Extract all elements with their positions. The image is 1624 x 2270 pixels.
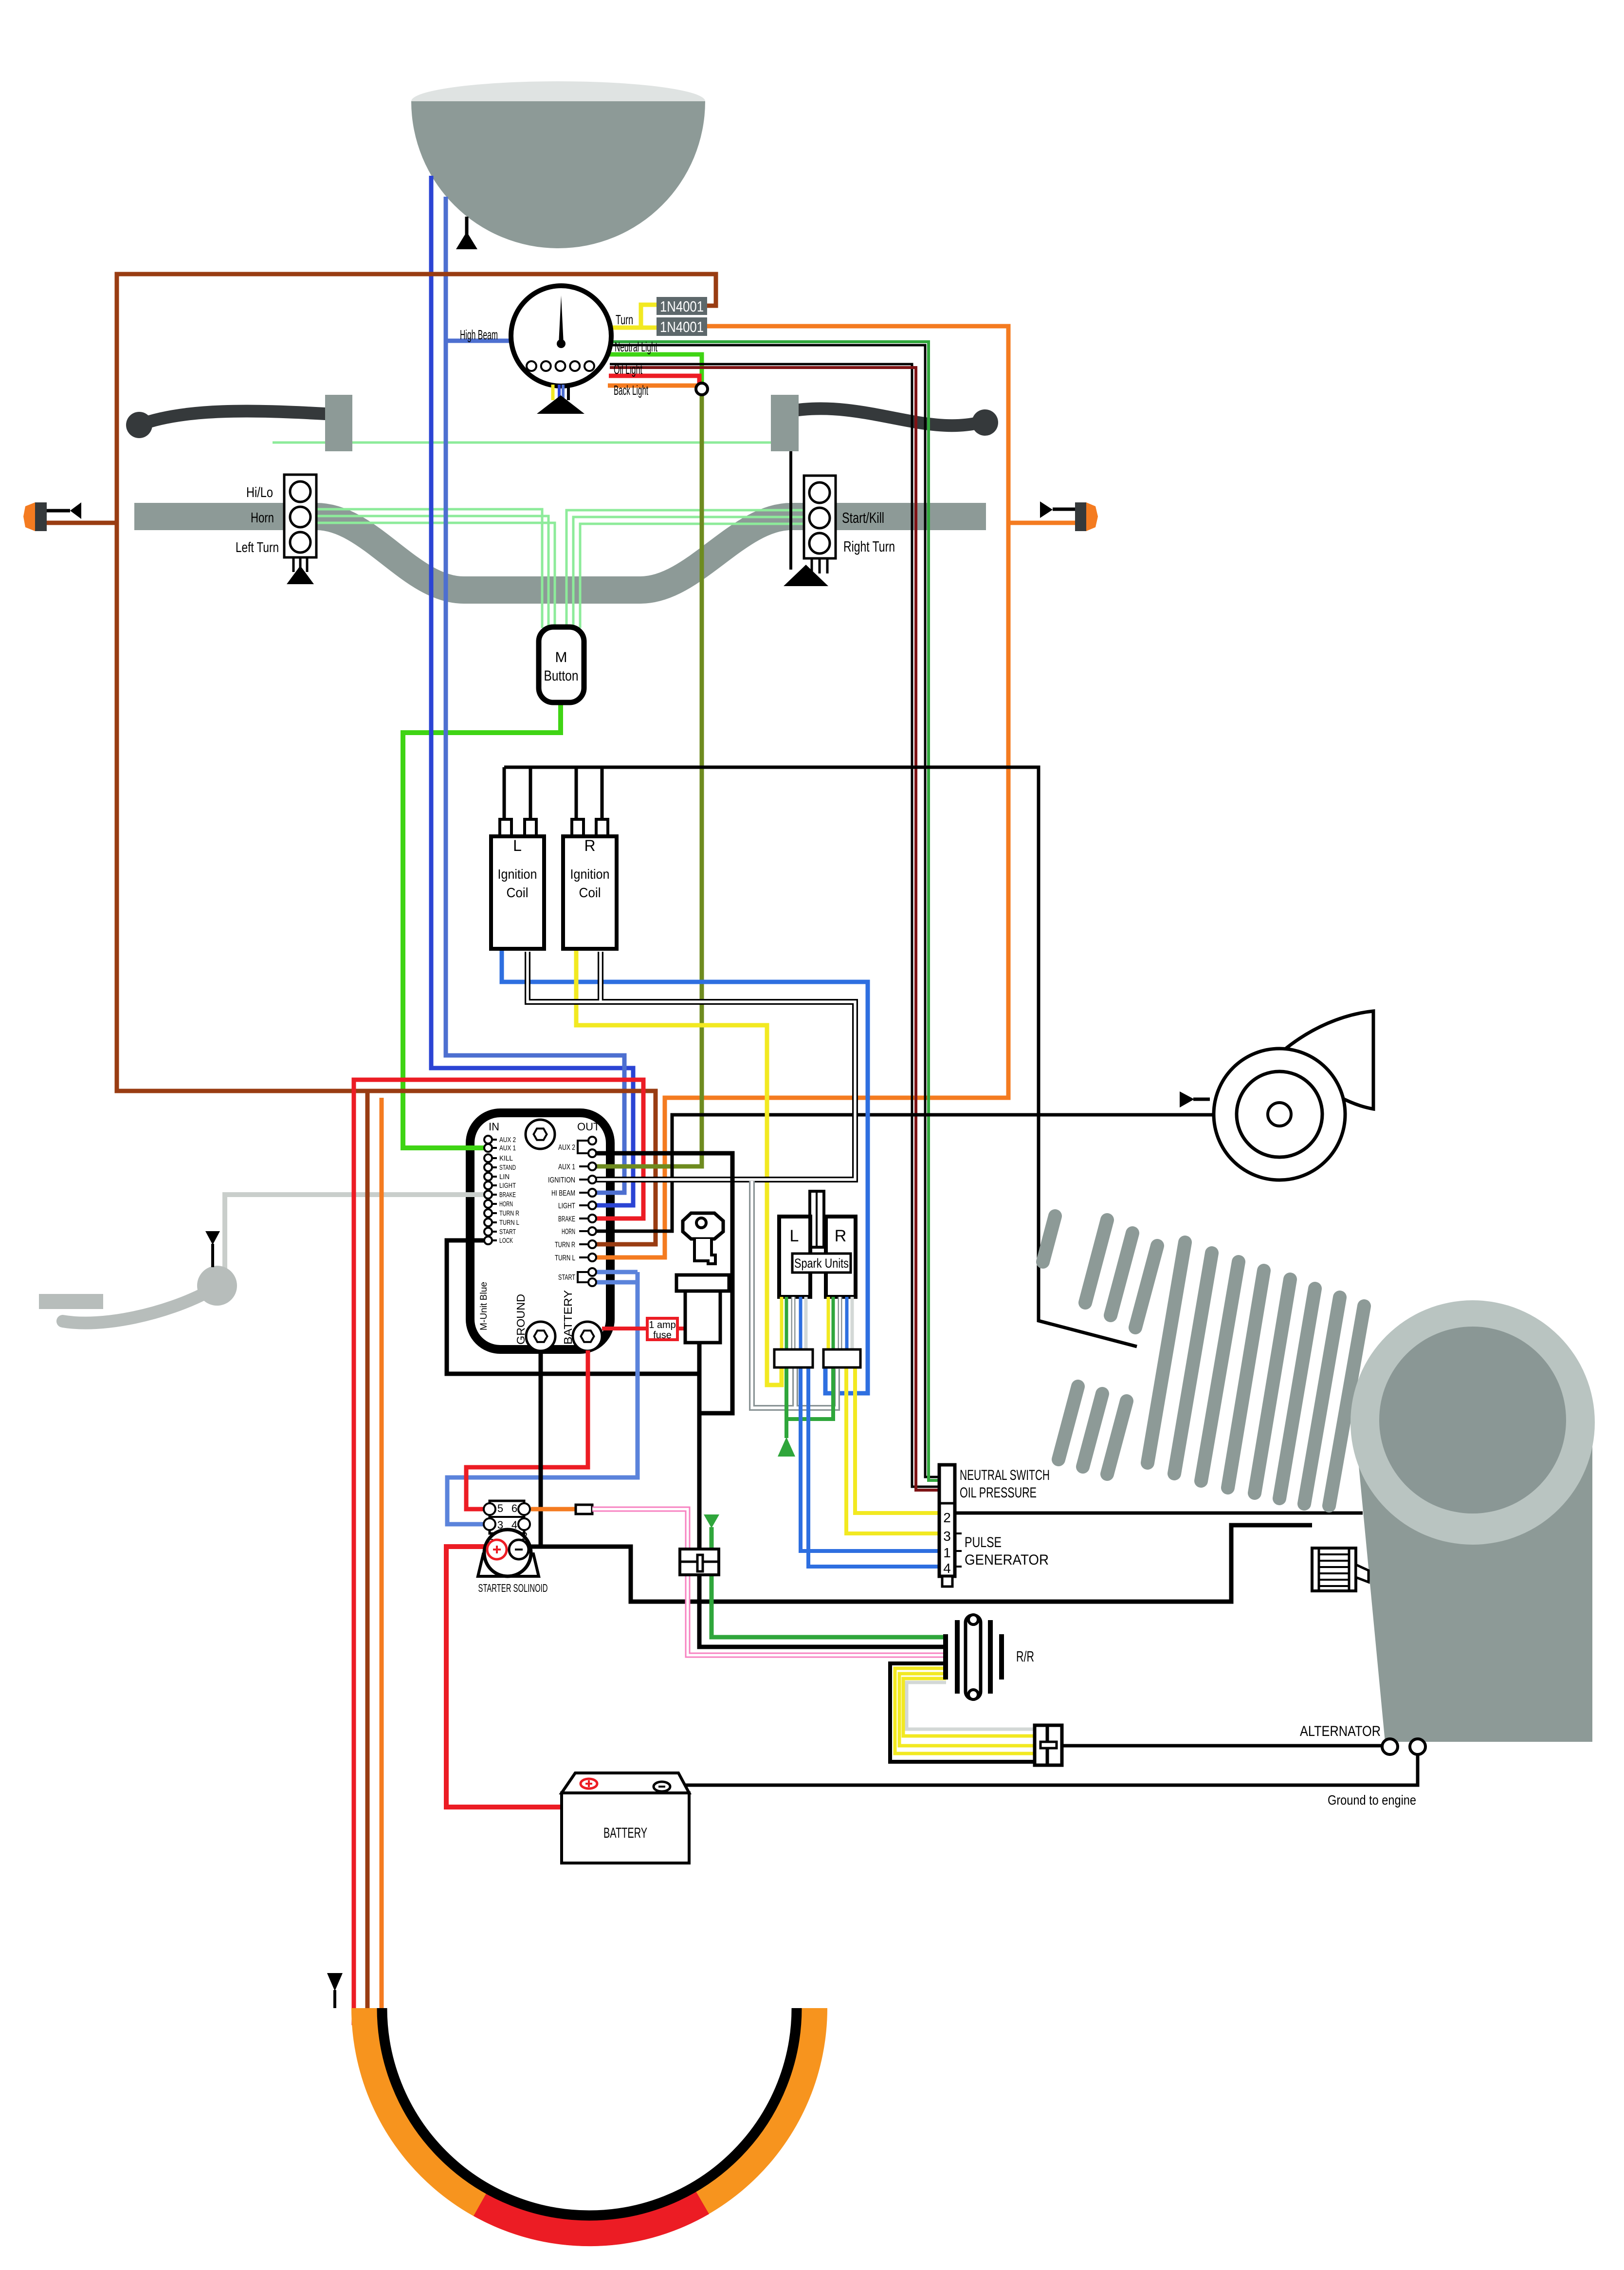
rear brake pedal: [39, 1266, 237, 1323]
svg-text:IN: IN: [489, 1121, 499, 1133]
horn: [1214, 1049, 1345, 1180]
left switch ground: [287, 557, 314, 584]
clutch lever left: [126, 411, 325, 438]
svg-text:Back Light: Back Light: [614, 383, 648, 398]
wire coils common black to engine and horn: [504, 767, 1215, 1347]
svg-text:Ground to engine: Ground to engine: [1328, 1792, 1416, 1808]
wire START OUT blue: [447, 1272, 638, 1524]
label Oil Light: [614, 362, 642, 377]
svg-text:Oil Light: Oil Light: [614, 362, 642, 377]
svg-text:TURN R: TURN R: [499, 1209, 519, 1218]
svg-text:2: 2: [943, 1510, 951, 1525]
svg-text:Coil: Coil: [579, 885, 601, 900]
left switch housing: [284, 475, 316, 557]
wire AUX2 OUT black to ignition switch: [596, 1153, 732, 1413]
svg-text:Neutral Light: Neutral Light: [615, 339, 657, 354]
svg-text:5: 5: [497, 1502, 503, 1514]
svg-text:Start/Kill: Start/Kill: [842, 509, 884, 526]
svg-text:STARTER SOLINOID: STARTER SOLINOID: [478, 1582, 548, 1594]
right turn signal: [1040, 501, 1098, 531]
wire gauge back light orange: [608, 384, 697, 388]
svg-text:IGNITION: IGNITION: [548, 1176, 575, 1184]
wire neutral switch pin2 to engine black: [955, 1512, 1363, 1515]
headlight bucket bowl: [411, 101, 705, 248]
wire right switch to M button light green: [566, 510, 804, 628]
svg-text:4: 4: [943, 1561, 951, 1576]
wire AUX1 OUT olive to gauge node: [596, 392, 702, 1166]
label ALTERNATOR: [1300, 1723, 1381, 1739]
M-unit BATTERY bolt: [573, 1322, 602, 1351]
svg-text:BRAKE: BRAKE: [558, 1215, 575, 1223]
wire gauge high beam indicator: [446, 339, 510, 343]
svg-text:LOCK: LOCK: [499, 1237, 513, 1245]
starter motor: [1312, 1548, 1369, 1591]
wire spark units gray pair: [752, 1181, 837, 1408]
wire BATTERY bolt to 1 amp fuse red: [602, 1327, 685, 1330]
clutch perch left: [325, 395, 352, 451]
spark unit R: [826, 1217, 856, 1297]
svg-text:HI BEAM: HI BEAM: [551, 1189, 575, 1198]
engine cylinder ring: [1350, 1300, 1595, 1545]
svg-text:LIGHT: LIGHT: [558, 1202, 575, 1210]
svg-text:fuse: fuse: [653, 1330, 672, 1341]
label IN: [489, 1121, 499, 1133]
M button: [539, 627, 584, 702]
ground symbol under gauge: [537, 395, 584, 414]
wire LOCK IN black: [447, 1240, 699, 1374]
wire RR to alternator connector bundle: [890, 1663, 1035, 1762]
wire headlight high beam cornflower (HI BEAM OUT): [446, 197, 624, 1193]
wire spark to pulse generator yellow 2: [855, 1366, 939, 1513]
svg-text:L: L: [513, 837, 522, 854]
svg-text:M-Unit Blue: M-Unit Blue: [479, 1282, 489, 1330]
wire battery negative ground to engine black: [671, 1753, 1418, 1785]
svg-text:OIL PRESSURE: OIL PRESSURE: [960, 1485, 1037, 1501]
green spade terminal at fuse: [704, 1514, 719, 1528]
rear fender arc: [351, 2008, 827, 2246]
svg-text:1N4001: 1N4001: [660, 298, 704, 315]
label GENERATOR: [965, 1552, 1049, 1568]
wire GROUND bolt black: [539, 1350, 543, 1547]
label Neutral Light: [615, 339, 657, 354]
svg-text:6: 6: [511, 1502, 517, 1514]
wire headlight low beam royal blue (LIGHT OUT): [431, 176, 633, 1205]
svg-text:M: M: [555, 649, 567, 665]
ignition coil R: [563, 767, 617, 949]
label M-Unit Blue: [479, 1282, 489, 1330]
svg-text:BATTERY: BATTERY: [562, 1290, 574, 1345]
svg-text:3: 3: [943, 1529, 951, 1544]
label Right Turn: [843, 538, 895, 555]
right perch kill wire: [789, 451, 792, 570]
label OIL PRESSURE: [960, 1485, 1037, 1501]
label Left Turn: [236, 540, 279, 555]
spark connector R: [823, 1349, 860, 1367]
svg-text:R/R: R/R: [1016, 1648, 1034, 1665]
svg-text:START: START: [558, 1273, 575, 1282]
battery: [562, 1773, 689, 1863]
svg-text:TURN L: TURN L: [555, 1254, 575, 1262]
diode D2 1N4001: [657, 317, 707, 336]
svg-text:START: START: [499, 1228, 516, 1236]
speedometer gauge: [511, 286, 611, 386]
svg-text:TURN L: TURN L: [499, 1218, 519, 1227]
label STARTER SOLINOID: [478, 1582, 548, 1594]
svg-text:LIN: LIN: [499, 1173, 510, 1181]
wire spark to pulse generator blue 1: [801, 1366, 939, 1551]
wire gauge oil light red: [609, 376, 699, 385]
M-unit M1 box: [470, 1113, 610, 1349]
wire rear brake switch silver: [225, 1195, 492, 1278]
ignition key: [683, 1213, 723, 1264]
right switch housing: [804, 476, 836, 558]
svg-text:HORN: HORN: [562, 1228, 575, 1236]
svg-text:STAND: STAND: [499, 1163, 516, 1172]
svg-text:1: 1: [943, 1545, 951, 1560]
handlebar: [134, 517, 986, 590]
svg-text:BATTERY: BATTERY: [603, 1825, 647, 1841]
svg-text:1: 1: [488, 1530, 493, 1542]
svg-text:AUX 1: AUX 1: [558, 1163, 575, 1171]
svg-text:BRAKE: BRAKE: [499, 1191, 516, 1199]
wire BATTERY bolt red to solenoid: [466, 1350, 588, 1509]
wire BRAKE OUT red to tail: [354, 1080, 643, 2015]
svg-text:L: L: [790, 1227, 799, 1245]
svg-text:ALTERNATOR: ALTERNATOR: [1300, 1723, 1381, 1739]
svg-text:AUX 2: AUX 2: [558, 1144, 575, 1152]
wire ignition switch to main fuse black: [697, 1343, 702, 1549]
wire ignition out double black: [528, 952, 855, 1180]
label R/R: [1016, 1648, 1034, 1665]
label Back Light: [614, 383, 648, 398]
engine cylinder body: [1358, 1429, 1592, 1742]
wire pink pair to RR: [592, 1509, 943, 1655]
svg-text:Coil: Coil: [507, 885, 529, 900]
wire neutral switch green with black tracer: [609, 342, 939, 1480]
wire gauge turn indicator yellow: [609, 305, 657, 328]
svg-text:Turn: Turn: [616, 312, 633, 327]
wire left signal to turn wire brown: [47, 521, 118, 525]
rear brake switch symbol: [205, 1231, 220, 1267]
wire spark to pulse generator yellow 3: [846, 1366, 939, 1533]
wire coil R yellow: [576, 950, 782, 1385]
horn bell: [1283, 1011, 1373, 1109]
wire diode1 to turn R brown: [117, 274, 716, 1244]
svg-text:TURN R: TURN R: [555, 1241, 575, 1249]
wire main fuse to RR black: [699, 1575, 943, 1647]
svg-text:R: R: [835, 1227, 847, 1245]
svg-text:GROUND: GROUND: [514, 1294, 527, 1345]
starter solenoid body: [478, 1530, 539, 1576]
engine cooling fins: [1043, 1216, 1364, 1506]
svg-text:R: R: [584, 837, 595, 854]
wire left switch to M button light green: [316, 509, 555, 628]
spark unit pigtails: [782, 1297, 852, 1349]
wire solenoid pigtail orange: [531, 1507, 576, 1512]
brake perch right: [771, 395, 799, 451]
label PULSE: [965, 1534, 1002, 1550]
main fuse: [680, 1549, 719, 1575]
right switch ground: [784, 558, 828, 586]
svg-text:KILL: KILL: [499, 1154, 513, 1163]
neutral switch / oil pressure connector: [939, 1465, 962, 1587]
headlight bucket lens: [411, 81, 705, 121]
wire alternator connector to alternator black: [1062, 1744, 1382, 1748]
M-unit IN pins: [484, 1136, 519, 1245]
label Start/Kill: [842, 509, 884, 526]
fuse F2 1 amp: [647, 1318, 677, 1341]
alternator terminals: [1382, 1739, 1425, 1754]
regulator rectifier R/R: [943, 1615, 1004, 1699]
svg-text:PULSE: PULSE: [965, 1534, 1002, 1550]
svg-text:Left Turn: Left Turn: [236, 540, 279, 555]
alternator connector: [1035, 1725, 1062, 1765]
left turn signal: [23, 502, 81, 531]
wire gauge neutral light lime: [607, 354, 702, 385]
wire green spade to RR: [712, 1527, 943, 1637]
wire right signal to turn wire orange: [1009, 521, 1075, 525]
wire tail brown branch: [365, 1091, 370, 2015]
label OUT: [577, 1121, 600, 1133]
engine cylinder bore: [1379, 1327, 1566, 1513]
svg-text:HORN: HORN: [499, 1200, 513, 1208]
tail wires into fender: [354, 1996, 382, 2025]
svg-text:GENERATOR: GENERATOR: [965, 1552, 1049, 1568]
spark unit L: [779, 1217, 810, 1297]
M-unit top bolt: [526, 1120, 555, 1149]
svg-text:2: 2: [522, 1530, 528, 1542]
M-unit OUT pins: [548, 1137, 596, 1286]
diode D1 1N4001: [657, 297, 707, 315]
svg-text:High Beam: High Beam: [460, 327, 498, 342]
svg-text:NEUTRAL SWITCH: NEUTRAL SWITCH: [960, 1467, 1050, 1483]
svg-text:Button: Button: [544, 668, 579, 684]
wire spark L green to spade: [786, 1366, 833, 1438]
svg-text:Hi/Lo: Hi/Lo: [246, 485, 273, 500]
svg-text:AUX 1: AUX 1: [499, 1144, 516, 1152]
svg-text:Ignition: Ignition: [498, 867, 537, 882]
connector bullet white: [576, 1505, 592, 1514]
M-unit GROUND bolt: [526, 1322, 555, 1351]
label Turn: [616, 312, 633, 327]
wire solenoid to battery red: [446, 1547, 562, 1807]
svg-text:1N4001: 1N4001: [660, 318, 704, 335]
horn connector arrow: [1180, 1091, 1194, 1107]
label BATTERY: [562, 1290, 574, 1345]
ground symbol at headlight: [456, 217, 477, 249]
label GROUND: [514, 1294, 527, 1345]
ignition coil L: [491, 767, 544, 949]
label Spark Units box: [792, 1254, 851, 1273]
label Horn: [251, 510, 274, 526]
gauge bottom wires: [553, 385, 568, 400]
green spade terminal under spark units: [778, 1437, 795, 1457]
svg-text:Right Turn: Right Turn: [843, 538, 895, 555]
ignition switch: [676, 1275, 729, 1343]
svg-text:AUX 2: AUX 2: [499, 1136, 516, 1144]
label NEUTRAL SWITCH: [960, 1467, 1050, 1483]
wire tail orange branch: [380, 1098, 384, 2013]
wire M button to AUX1 IN bright green: [403, 702, 561, 1148]
spark connector L: [774, 1349, 813, 1367]
svg-text:Ignition: Ignition: [570, 867, 610, 882]
wire solenoid to starter motor black: [529, 1525, 1312, 1602]
label Hi/Lo: [246, 485, 273, 500]
wire front brake switch light green: [273, 442, 788, 444]
svg-text:Horn: Horn: [251, 510, 274, 526]
svg-text:Spark Units: Spark Units: [794, 1256, 849, 1271]
node gauge indicator junction: [696, 383, 708, 395]
label High Beam: [460, 327, 498, 342]
label Ground to engine: [1328, 1792, 1416, 1808]
wire spark to pulse generator blue 4: [808, 1366, 939, 1567]
brake lever right: [799, 408, 998, 436]
svg-text:1 amp: 1 amp: [649, 1320, 676, 1330]
wire coil L blue: [502, 950, 868, 1393]
svg-text:LIGHT: LIGHT: [499, 1181, 516, 1190]
svg-text:OUT: OUT: [577, 1121, 600, 1133]
wire diode2 orange to turn signals and TURN L OUT: [596, 326, 1008, 1257]
starter solenoid connector: [484, 1501, 530, 1533]
wire oil pressure maroon with black tracer: [610, 364, 939, 1490]
spark unit center connector: [810, 1191, 824, 1247]
ground symbol at tail: [327, 1973, 343, 2008]
